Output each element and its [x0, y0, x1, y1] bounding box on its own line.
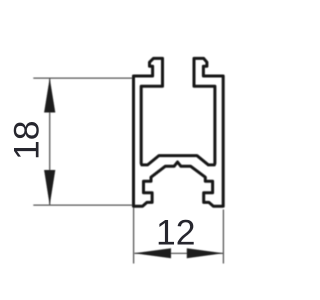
- svg-text:18: 18: [7, 121, 47, 161]
- svg-text:12: 12: [156, 212, 196, 252]
